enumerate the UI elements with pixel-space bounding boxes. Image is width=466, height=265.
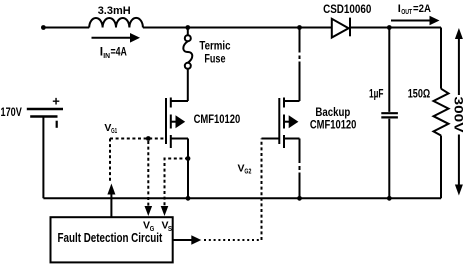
wire VG2 output from box with right arrow (173, 235, 202, 245)
fault detection circuit box (51, 217, 173, 262)
node Q2 drain tap dot (297, 25, 302, 30)
thermal fuse F1 (183, 28, 192, 102)
node Q1 source bottom rail dot (186, 196, 191, 201)
transistor Q1 arrow (176, 115, 186, 128)
capacitor C1 1uF (381, 28, 398, 199)
transistor Q2 arrow (289, 115, 299, 128)
wire VG2 dashed vertical up to Q2 gate (261, 139, 263, 241)
svg-text:S: S (168, 226, 172, 233)
wire top rail middle (143, 27, 332, 29)
svg-text:CMF10120: CMF10120 (194, 112, 241, 126)
node VG1 dash junction dot (146, 136, 151, 141)
wire VS sense dashed: tap on Q1 source then down to box (161, 159, 188, 217)
wire top rail (43, 27, 89, 29)
battery V1 170V (27, 109, 63, 128)
arrow Iout (391, 16, 440, 26)
wire Q2 drain with break (299, 28, 301, 102)
wire left rail above battery (42, 117, 44, 199)
wire VG2 dotted horizontal (204, 239, 262, 241)
node fuse tap junction dot (185, 25, 190, 30)
svg-text:Fault Detection Circuit: Fault Detection Circuit (58, 230, 163, 245)
transistor Q1 CMF10120 (166, 98, 188, 199)
wire Q2 gate lead solid (262, 138, 280, 140)
svg-text:Termic: Termic (199, 38, 230, 52)
svg-text:170V: 170V (1, 105, 22, 119)
wire VG sense dashed down to box (145, 141, 153, 216)
svg-text:+: + (52, 94, 60, 109)
wire after diode to top-right corner (350, 27, 441, 29)
wire VG1 dashed horizontal (110, 138, 165, 140)
node top-left corner dot (41, 25, 46, 30)
svg-text:IN: IN (103, 51, 110, 60)
svg-text:CMF10120: CMF10120 (310, 118, 357, 132)
node Q1 source VS tap dot (186, 156, 191, 161)
svg-text:150Ω: 150Ω (408, 87, 431, 101)
svg-text:=4A: =4A (111, 45, 128, 59)
arrow Iin (92, 33, 141, 43)
svg-text:300V: 300V (452, 97, 466, 133)
wire right rail upper (440, 28, 442, 89)
diode D1 CSD10060 (332, 18, 350, 38)
arrow 300V double-headed (454, 28, 465, 196)
svg-text:=2A: =2A (413, 3, 431, 15)
resistor R1 150 ohm zigzag (434, 89, 449, 136)
transistor Q2 backup CMF10120 (279, 98, 299, 149)
svg-text:Backup: Backup (315, 105, 350, 119)
node capacitor tap dot (387, 25, 392, 30)
svg-text:1µF: 1µF (369, 87, 384, 101)
svg-text:G1: G1 (111, 128, 117, 135)
svg-text:OUT: OUT (401, 9, 413, 16)
svg-text:3.3mH: 3.3mH (98, 5, 131, 17)
svg-text:G2: G2 (244, 169, 251, 176)
wire bottom rail (43, 197, 441, 199)
node capacitor bottom rail dot (387, 196, 392, 201)
wire Q2 source with break (299, 139, 301, 199)
wire fault box drive line with up arrow (107, 184, 115, 218)
svg-text:Fuse: Fuse (204, 51, 225, 65)
wire right rail lower (440, 136, 442, 199)
node Q2 source bottom rail dot (297, 196, 302, 201)
svg-text:CSD10060: CSD10060 (323, 2, 372, 16)
inductor L1 3.3mH (89, 18, 143, 28)
wire VG1 dashed vertical (109, 139, 111, 183)
